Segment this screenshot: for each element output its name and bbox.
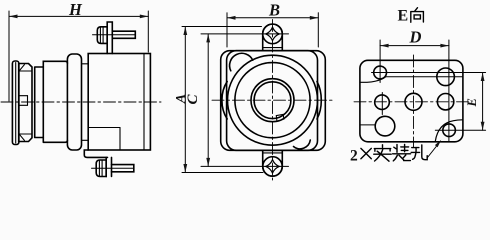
coupling ring outer circle [228, 55, 318, 145]
top screw axis line [93, 34, 136, 36]
bottom-right boss arc [294, 140, 311, 149]
svg-text:H: H [68, 0, 83, 19]
glyph kong [411, 145, 427, 160]
bottom screw head [96, 160, 106, 177]
link line bottom [82, 139, 89, 141]
hole top-right [437, 68, 455, 86]
coupling ring inner circle [235, 63, 310, 138]
bottom screw axis line [92, 167, 134, 169]
centerline (side view) [1, 101, 161, 103]
plate horizontal centerline [354, 101, 469, 103]
body inner vertical (rear flange line) [143, 54, 145, 151]
body rectangle [88, 54, 150, 151]
mounting hole top-left [374, 66, 387, 79]
top ear base line [263, 47, 283, 49]
nut chamfer diagonal bottom [20, 135, 25, 141]
hole mid-center [405, 93, 422, 110]
top screw cross recess [266, 27, 280, 41]
raised collar ring [67, 54, 81, 150]
top-left pad boundary [360, 77, 385, 82]
pad line through top-right hole [386, 76, 463, 78]
E extension bottom (through bottom-right hole) [435, 129, 485, 131]
nut chamfer line top [19, 70, 32, 72]
hole bottom-left [375, 116, 395, 136]
right side lug arc [317, 82, 321, 120]
top-left boss arc [230, 53, 253, 71]
bottom ear base line [263, 152, 283, 154]
nut waist lower line [19, 104, 28, 106]
hole mid-right [437, 94, 453, 110]
dimension H extension lines [9, 11, 148, 101]
mounting plate [360, 60, 463, 142]
hole mid-left vertical tick [381, 93, 383, 115]
top screw head [97, 27, 107, 44]
bottom screw shank [112, 165, 134, 172]
cap inner rim line [15, 63, 17, 144]
bottom ear [263, 150, 283, 176]
bracket right edge [119, 128, 121, 151]
nut waist upper line [19, 95, 28, 97]
dimension E arrowheads [481, 73, 485, 82]
note symbol: x [361, 148, 371, 158]
top screw lug plate [107, 22, 112, 54]
dimension D line [380, 45, 449, 47]
bracket foot [84, 150, 107, 157]
dimension C lines [201, 34, 289, 167]
section 1 (small step cylinder) [35, 67, 44, 138]
hole mid-left [375, 95, 390, 110]
svg-text:E: E [465, 98, 479, 107]
center hole outer circle [251, 79, 294, 122]
cap (left end of plug) [12, 61, 19, 145]
front view horizontal centerline [212, 99, 333, 101]
dimension H arrowheads [9, 15, 18, 19]
top screw shank [112, 31, 135, 38]
top ear [263, 24, 283, 51]
bottom-right pad boundary [435, 120, 462, 142]
svg-text:D: D [409, 28, 422, 47]
bracket top line [88, 127, 120, 129]
dimension A lines [182, 27, 263, 173]
D extension left (through top-left hole) [379, 40, 381, 83]
plate vertical centerline [413, 55, 415, 147]
dimension D arrowheads [380, 44, 389, 48]
top screw slot lines [100, 27, 103, 44]
hole bottom-left horizontal tick [360, 124, 375, 126]
svg-text:C: C [185, 94, 201, 105]
dimension A arrowheads [183, 27, 187, 36]
svg-text:E: E [398, 8, 409, 25]
bottom screw cross recess [266, 160, 280, 174]
dimension C arrowheads [206, 34, 210, 43]
leader arrowhead [435, 140, 441, 147]
title: glyph xiang [411, 8, 424, 23]
nut chamfer diagonal top [20, 65, 25, 71]
mounting hole bottom-right [443, 124, 456, 137]
glyph an [374, 145, 391, 161]
D extension right (through bottom-right hole) [448, 40, 450, 141]
front view vertical centerline [272, 20, 274, 181]
section 2 (main barrel) [43, 61, 67, 142]
key notch [276, 114, 284, 121]
nut waist right edge [27, 96, 29, 106]
flange square [227, 51, 318, 151]
link line top (between collar and body) [82, 63, 89, 65]
body square (behind flange) [221, 51, 326, 151]
nut chamfer line bottom [19, 133, 32, 135]
left side lug arc [222, 82, 227, 120]
dimension B arrowheads [227, 16, 236, 20]
bottom screw circle [263, 157, 282, 176]
bottom screw lug plate [106, 157, 111, 176]
dimension B lines [227, 13, 318, 47]
center hole inner circle [254, 82, 291, 119]
dimension E line [482, 73, 484, 131]
svg-text:B: B [268, 1, 280, 20]
E extension top (through top-left hole) [372, 72, 486, 74]
glyph zhuang [393, 144, 411, 161]
leader line to mounting hole [428, 142, 440, 158]
bottom screw slot lines [99, 160, 102, 177]
top screw circle [263, 24, 283, 44]
svg-text:2: 2 [350, 148, 358, 165]
coupling nut body [19, 64, 32, 142]
